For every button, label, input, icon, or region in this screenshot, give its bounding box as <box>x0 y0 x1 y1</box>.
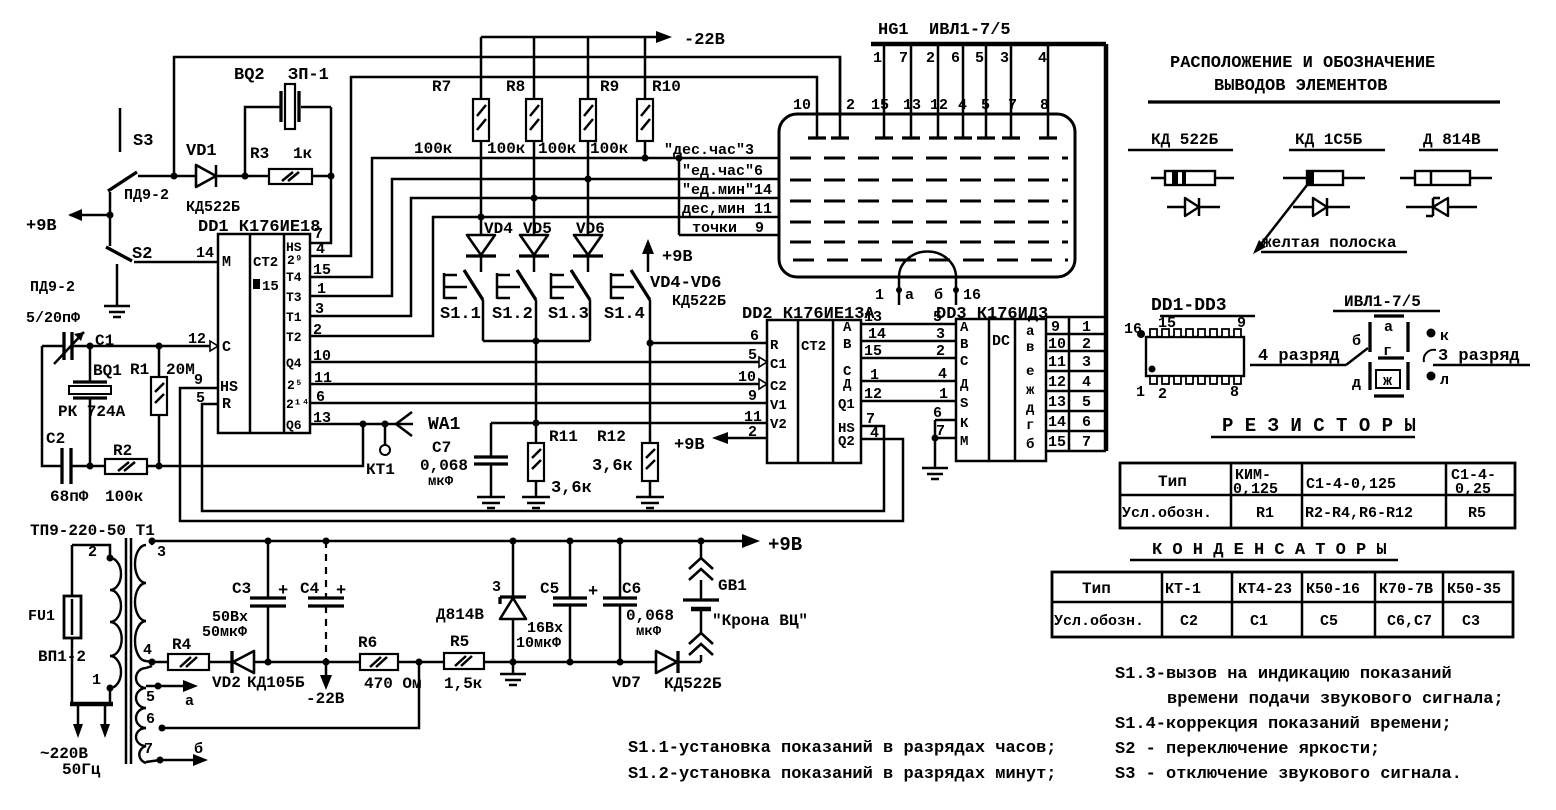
svg-text:100к: 100к <box>590 140 629 158</box>
junction R10/bus1 <box>642 155 649 162</box>
svg-text:Усл.обозн.: Усл.обозн. <box>1122 505 1212 522</box>
svg-text:С2: С2 <box>1180 613 1198 630</box>
svg-text:Усл.обозн.: Усл.обозн. <box>1054 613 1144 630</box>
svg-text:9: 9 <box>1237 315 1246 332</box>
svg-text:3: 3 <box>492 579 501 596</box>
svg-text:6: 6 <box>951 50 960 67</box>
node R6/R5 <box>416 659 423 666</box>
switch S2 (ПД9-2) <box>30 215 218 296</box>
svg-text:10: 10 <box>1048 336 1066 353</box>
junction R9/bus2 <box>585 176 592 183</box>
svg-text:КД 1С5Б: КД 1С5Б <box>1295 131 1363 149</box>
node feedback tap <box>360 421 367 428</box>
svg-text:C2: C2 <box>46 430 65 448</box>
svg-text:5: 5 <box>975 50 984 67</box>
svg-text:S1.4: S1.4 <box>604 305 645 324</box>
diode type КД 522Б heading <box>1128 131 1233 150</box>
svg-text:2: 2 <box>1158 386 1167 403</box>
wire DD1 pin 4 up to display pin 10 <box>310 77 817 256</box>
svg-text:РК 724А: РК 724А <box>58 403 126 421</box>
svg-text:5: 5 <box>146 689 155 706</box>
7-segment pictogram <box>1352 316 1449 396</box>
node S1.4 to R line <box>647 340 654 347</box>
wire bus4 дес.мин (DD1 p2) <box>310 217 779 336</box>
resistor R11 3,6к <box>522 423 592 508</box>
svg-text:С3: С3 <box>1462 613 1480 630</box>
svg-text:R10: R10 <box>652 78 681 96</box>
svg-text:М: М <box>222 254 231 271</box>
resistor R12 3,6к <box>592 428 664 508</box>
DD3 left pin numbers <box>933 309 948 440</box>
svg-text:100к: 100к <box>487 140 526 158</box>
svg-text:R6: R6 <box>358 634 377 652</box>
wire DD1 p10 to DD2 C1 <box>310 361 760 364</box>
capacitor C6 0,068мкФ <box>603 541 674 666</box>
svg-text:Т3: Т3 <box>286 290 302 305</box>
diode symbol КД522Б <box>1167 198 1220 216</box>
svg-text:13: 13 <box>1048 394 1066 411</box>
svg-text:3 разряд: 3 разряд <box>1438 347 1520 366</box>
svg-text:6: 6 <box>1082 414 1091 431</box>
svg-text:Д: Д <box>960 377 969 393</box>
svg-text:ж: ж <box>1383 373 1392 390</box>
svg-text:КД522Б: КД522Б <box>186 199 240 216</box>
capacitor C7 0,068мкФ <box>420 423 508 508</box>
svg-text:мкФ: мкФ <box>428 474 454 490</box>
svg-text:R1: R1 <box>130 361 149 379</box>
svg-text:+: + <box>278 582 288 601</box>
svg-text:+9В: +9В <box>768 534 802 556</box>
svg-text:4: 4 <box>938 366 947 383</box>
svg-text:10: 10 <box>738 369 756 386</box>
svg-text:50Гц: 50Гц <box>62 761 101 779</box>
svg-text:6: 6 <box>750 328 759 345</box>
svg-text:GB1: GB1 <box>718 577 747 595</box>
svg-text:к: к <box>1440 328 1449 345</box>
svg-text:д: д <box>1026 401 1035 417</box>
svg-text:"дес.час"3: "дес.час"3 <box>664 142 754 159</box>
switch S3 (ПД9-2) <box>108 108 169 215</box>
package drawing КД522Б <box>1151 171 1234 185</box>
label box of display inputs <box>664 142 772 237</box>
svg-text:+9В: +9В <box>662 248 693 267</box>
svg-text:R2-R4,R6-R12: R2-R4,R6-R12 <box>1305 505 1413 522</box>
winding tap a arrow <box>158 680 198 710</box>
power arrow -22V <box>306 662 345 708</box>
capacitor C4 (dashed option) <box>300 541 346 666</box>
right segment bus <box>1104 44 1109 451</box>
svg-text:7: 7 <box>144 741 153 758</box>
node R1 bottom <box>156 463 163 470</box>
svg-text:В: В <box>960 337 969 353</box>
svg-text:1: 1 <box>1136 384 1145 401</box>
svg-text:ж: ж <box>1026 383 1035 399</box>
diode VD5 <box>519 198 552 256</box>
svg-text:12: 12 <box>188 331 206 348</box>
node R1 top <box>156 343 163 350</box>
resistor R6 470 Ом <box>358 634 422 693</box>
svg-text:2¹⁴: 2¹⁴ <box>286 397 309 412</box>
yellow stripe pointer <box>1253 180 1407 254</box>
transformer secondary 3-4 <box>135 538 166 666</box>
node A (+9V switch node) <box>107 212 114 219</box>
wire bus1 дес.час (DD1 p15 to display) <box>310 158 779 277</box>
svg-text:DD3 К176ИД3: DD3 К176ИД3 <box>936 305 1048 324</box>
svg-text:10мкФ: 10мкФ <box>516 635 561 652</box>
svg-text:R4: R4 <box>172 636 192 654</box>
svg-text:11: 11 <box>1048 354 1066 371</box>
wire DD2 A to DD3 A <box>861 323 956 326</box>
label 3 разряд <box>1424 347 1530 366</box>
svg-text:2: 2 <box>936 343 945 360</box>
node BQ1 bottom <box>87 463 94 470</box>
capacitor table <box>1052 572 1513 637</box>
diode VD7 КД522Б <box>612 651 722 693</box>
svg-text:VD7: VD7 <box>612 674 641 692</box>
power arrow +9V (S1.4 top) <box>642 239 693 272</box>
svg-text:8: 8 <box>1040 97 1049 114</box>
svg-text:0,25: 0,25 <box>1455 481 1491 498</box>
wire common down to V2 line <box>535 341 538 423</box>
svg-text:С5: С5 <box>1320 613 1338 630</box>
rectified -22V line <box>152 661 701 664</box>
svg-text:BQ1: BQ1 <box>93 362 122 380</box>
zener VD3 Д814В <box>436 541 526 685</box>
svg-text:РАСПОЛОЖЕНИЕ И ОБОЗНАЧЕНИЕ: РАСПОЛОЖЕНИЕ И ОБОЗНАЧЕНИЕ <box>1170 54 1435 73</box>
svg-text:100к: 100к <box>538 140 577 158</box>
svg-text:R: R <box>770 338 779 354</box>
wire DD2 D to DD3 D <box>861 380 956 383</box>
svg-text:Q6: Q6 <box>286 418 302 433</box>
winding tap b arrow <box>160 741 208 766</box>
display HG1 ИВЛ1-7/5 <box>779 21 1075 277</box>
svg-text:S1.4-коррекция показаний време: S1.4-коррекция показаний времени; <box>1115 715 1452 734</box>
svg-text:г: г <box>1026 418 1034 434</box>
svg-text:2⁵: 2⁵ <box>287 378 303 393</box>
svg-text:2: 2 <box>88 544 97 561</box>
capacitor C3 50Вх50мкФ <box>202 541 288 666</box>
svg-text:15: 15 <box>262 279 279 295</box>
svg-text:C5: C5 <box>540 580 559 598</box>
svg-text:9: 9 <box>194 372 203 389</box>
resistors section title <box>1211 415 1416 437</box>
filament lead a <box>875 277 914 305</box>
switch S1.1 <box>440 256 483 341</box>
switch S1.2 <box>492 256 536 341</box>
svg-text:3,6к: 3,6к <box>592 457 633 476</box>
svg-text:HS: HS <box>220 379 238 396</box>
svg-text:ВП1-2: ВП1-2 <box>38 648 86 666</box>
svg-text:-22В: -22В <box>306 690 345 708</box>
svg-text:4 разряд: 4 разряд <box>1258 347 1340 366</box>
resistor R7 100к <box>414 37 489 217</box>
svg-text:R3: R3 <box>250 145 269 163</box>
transformer secondary 6-7 <box>136 725 166 764</box>
svg-text:S1.2: S1.2 <box>492 305 533 324</box>
package drawing КД105Б <box>1283 171 1365 185</box>
wire bus2 ед.час (DD1 p1) <box>310 179 779 296</box>
svg-text:15: 15 <box>871 97 889 114</box>
junction R7/bus4 <box>478 214 485 221</box>
svg-text:6: 6 <box>146 711 155 728</box>
display grid dashed rows <box>790 158 1068 260</box>
wire bus5 точки <box>679 234 779 237</box>
svg-text:б: б <box>194 741 203 758</box>
svg-text:дес,мин 11: дес,мин 11 <box>682 201 772 218</box>
svg-text:1: 1 <box>873 50 882 67</box>
resistor R1 20М <box>130 346 195 466</box>
svg-text:HG1 ИВЛ1-7/5: HG1 ИВЛ1-7/5 <box>878 21 1011 40</box>
DD1-DD3 package heading <box>1151 296 1255 316</box>
svg-text:R12: R12 <box>597 428 626 446</box>
svg-text:4: 4 <box>143 642 152 659</box>
power arrow +9V top-left <box>26 209 110 236</box>
svg-text:С1: С1 <box>1250 613 1268 630</box>
IC DD3 К176ИД3 <box>936 305 1048 461</box>
DIP16 package drawing <box>1124 315 1246 403</box>
diode symbol КД105Б <box>1293 198 1350 216</box>
svg-text:-22В: -22В <box>684 31 725 50</box>
transformer core <box>126 538 131 764</box>
svg-text:3,6к: 3,6к <box>551 479 592 498</box>
label 4 разряд <box>1250 347 1368 366</box>
svg-text:5: 5 <box>1082 394 1091 411</box>
switch S1.3 <box>548 256 590 341</box>
svg-text:R7: R7 <box>432 78 451 96</box>
wire DD1 p13 seconds line to DD2 V2 <box>310 423 767 424</box>
svg-text:R9: R9 <box>600 78 619 96</box>
svg-text:VD1: VD1 <box>186 142 217 161</box>
wire switch common S1.1-S1.3 <box>483 340 590 343</box>
svg-text:C4: C4 <box>300 580 320 598</box>
svg-text:ИВЛ1-7/5: ИВЛ1-7/5 <box>1344 293 1421 311</box>
svg-text:"Крона ВЦ": "Крона ВЦ" <box>712 612 808 630</box>
svg-text:DD1-DD3: DD1-DD3 <box>1151 296 1227 316</box>
node VD1/R3/BQ2 <box>242 173 249 180</box>
mains plug ~220V <box>40 688 113 779</box>
wire DD1 p6 to DD2 V1 <box>310 402 767 405</box>
svg-text:3: 3 <box>936 326 945 343</box>
svg-text:ПД9-2: ПД9-2 <box>30 279 75 296</box>
svg-text:14: 14 <box>1048 414 1066 431</box>
svg-text:VD2: VD2 <box>212 674 241 692</box>
svg-text:1,5к: 1,5к <box>444 675 483 693</box>
DD3 right pin numbers col 9-15 <box>1048 319 1066 451</box>
svg-text:+9В: +9В <box>674 436 705 455</box>
display segment pin numbers col 1-7 <box>1082 319 1091 451</box>
wire BQ2/R3 node down to DD1 pin 7 <box>310 107 331 243</box>
wire DD1 p11 to DD2 C2 <box>310 383 760 386</box>
svg-text:"ед.мин"14: "ед.мин"14 <box>682 182 772 199</box>
svg-text:1: 1 <box>875 287 884 304</box>
svg-text:2: 2 <box>748 424 757 441</box>
svg-text:+: + <box>336 582 346 601</box>
package drawing Д814В <box>1400 171 1492 185</box>
svg-text:4: 4 <box>958 97 967 114</box>
diode VD6 <box>573 179 605 256</box>
svg-text:VD4-VD6: VD4-VD6 <box>650 274 721 293</box>
svg-text:4: 4 <box>316 241 325 258</box>
ИВЛ1-7/5 pinout heading <box>1333 293 1440 311</box>
svg-text:1: 1 <box>92 672 101 689</box>
switch S1.4 <box>604 270 650 343</box>
battery GB1 Крона ВЦ <box>683 541 808 662</box>
svg-text:S: S <box>960 396 968 412</box>
svg-text:КД522Б: КД522Б <box>664 675 722 693</box>
svg-text:R: R <box>222 396 231 413</box>
svg-text:R1: R1 <box>1256 505 1274 522</box>
svg-text:R2: R2 <box>113 442 132 460</box>
svg-text:1: 1 <box>1082 319 1091 336</box>
svg-text:е: е <box>1026 364 1034 380</box>
svg-text:К50-35: К50-35 <box>1447 581 1501 598</box>
svg-text:2: 2 <box>1082 336 1091 353</box>
capacitors section title <box>1130 541 1398 560</box>
svg-text:Р Е З И С Т О Р Ы: Р Е З И С Т О Р Ы <box>1222 415 1416 437</box>
svg-text:2⁹: 2⁹ <box>287 253 303 268</box>
svg-text:2: 2 <box>926 50 935 67</box>
svg-text:3: 3 <box>157 544 166 561</box>
svg-text:б: б <box>934 287 943 304</box>
svg-text:S1.3: S1.3 <box>548 305 589 324</box>
svg-text:2: 2 <box>846 97 855 114</box>
power arrow +9V (DD2 pin2) <box>674 432 767 455</box>
svg-text:+9В: +9В <box>26 217 57 236</box>
svg-text:Q1: Q1 <box>838 397 855 413</box>
svg-text:С1-4-0,125: С1-4-0,125 <box>1306 476 1396 493</box>
transformer secondary 5-6 <box>136 666 162 728</box>
svg-text:К50-16: К50-16 <box>1306 581 1360 598</box>
svg-text:а: а <box>905 287 914 304</box>
svg-text:R11: R11 <box>549 428 578 446</box>
svg-text:VD6: VD6 <box>576 220 605 238</box>
wire DD2 B to DD3 B <box>861 340 956 343</box>
svg-text:времени подачи звукового сигна: времени подачи звукового сигнала; <box>1167 690 1504 709</box>
DD2 input arrows C1 C2 <box>759 357 767 367</box>
svg-text:Т4: Т4 <box>286 270 302 285</box>
svg-text:1к: 1к <box>293 145 313 163</box>
svg-text:S1.1-установка показаний в раз: S1.1-установка показаний в разрядах часо… <box>628 739 1056 758</box>
node KT1 tap <box>382 421 389 428</box>
diode VD4 <box>466 217 513 256</box>
variable capacitor C1 5/20пФ <box>26 310 114 364</box>
wire R line to DD2 R pin6 <box>650 342 767 345</box>
node C1/BQ1 <box>87 343 94 350</box>
svg-text:S1.2-установка показаний в раз: S1.2-установка показаний в разрядах мину… <box>628 765 1056 784</box>
svg-text:точки 9: точки 9 <box>692 220 764 237</box>
wire DD1 HS loop (to DD2 Q2) <box>180 388 903 521</box>
svg-text:ПД9-2: ПД9-2 <box>124 187 169 204</box>
ground (S2 lower throw) <box>104 264 130 317</box>
svg-text:КТ4-23: КТ4-23 <box>1238 581 1292 598</box>
svg-text:КД105Б: КД105Б <box>247 674 305 692</box>
svg-text:Тип: Тип <box>1082 580 1111 598</box>
svg-text:15: 15 <box>1158 315 1176 332</box>
svg-text:R5: R5 <box>1468 505 1486 522</box>
svg-text:в: в <box>1026 340 1034 356</box>
svg-text:V2: V2 <box>770 417 787 433</box>
svg-text:S2 - переключение яркости;: S2 - переключение яркости; <box>1115 740 1380 759</box>
svg-text:мкФ: мкФ <box>636 624 662 640</box>
svg-text:Т1: Т1 <box>286 310 302 325</box>
svg-text:"ед.час"6: "ед.час"6 <box>682 163 763 180</box>
display pin wires from rail <box>808 44 1057 138</box>
svg-text:1: 1 <box>939 386 948 403</box>
svg-text:а: а <box>1026 324 1035 340</box>
svg-text:9: 9 <box>748 388 757 405</box>
svg-text:S1.3-вызов на индикацию показа: S1.3-вызов на индикацию показаний <box>1115 665 1452 684</box>
node top rail tap <box>171 173 178 180</box>
-22V rail top <box>481 31 725 50</box>
resistor R8 100к <box>487 37 542 198</box>
svg-text:Д814В: Д814В <box>436 606 484 624</box>
diode VD2 КД105Б <box>212 651 305 692</box>
wire DD2 C to DD3 C <box>861 357 956 360</box>
svg-text:S1.1: S1.1 <box>440 305 481 324</box>
filament lead b <box>934 277 981 305</box>
diode type КД 105Б heading <box>1289 131 1385 150</box>
svg-text:14: 14 <box>196 245 214 262</box>
display top anode rail <box>871 42 1106 47</box>
diode VD1 КД522Б <box>186 142 245 216</box>
svg-text:15: 15 <box>1048 434 1066 451</box>
svg-text:13: 13 <box>903 97 921 114</box>
svg-text:л: л <box>1440 372 1449 389</box>
svg-text:12: 12 <box>1048 374 1066 391</box>
svg-text:DD1 К176ИЕ18: DD1 К176ИЕ18 <box>198 218 320 237</box>
svg-text:0,125: 0,125 <box>1233 481 1278 498</box>
svg-text:Q2: Q2 <box>838 434 855 450</box>
svg-text:а: а <box>185 693 194 710</box>
notes bottom middle <box>628 739 1056 784</box>
piezo BQ2 ЗП-1 <box>234 66 331 176</box>
wire S3 to VD1 <box>138 175 196 178</box>
label VD4-VD6 КД522Б <box>650 274 726 310</box>
svg-text:7: 7 <box>1008 97 1017 114</box>
svg-text:Д 814В: Д 814В <box>1423 131 1481 149</box>
fuse FU1 <box>28 545 86 703</box>
node R3 right / pin7 <box>328 173 335 180</box>
svg-text:3: 3 <box>1000 50 1009 67</box>
svg-text:КТ-1: КТ-1 <box>1165 581 1201 598</box>
zener symbol Д814В <box>1406 198 1477 216</box>
svg-text:К: К <box>960 416 969 432</box>
svg-text:5: 5 <box>981 97 990 114</box>
svg-text:4: 4 <box>870 425 879 442</box>
svg-text:68пФ: 68пФ <box>50 488 89 506</box>
svg-text:б: б <box>1026 437 1034 453</box>
resistor table <box>1120 463 1515 528</box>
svg-text:д: д <box>1352 375 1361 392</box>
svg-text:C3: C3 <box>232 580 251 598</box>
resistor R10 100к <box>590 37 681 158</box>
wire feedback to seconds line <box>159 424 363 466</box>
notes right column <box>1115 665 1504 784</box>
svg-text:10: 10 <box>793 97 811 114</box>
svg-text:СТ2: СТ2 <box>801 339 826 355</box>
svg-text:C: C <box>222 339 231 356</box>
svg-text:C2: C2 <box>770 379 787 395</box>
svg-text:4: 4 <box>1082 374 1091 391</box>
svg-text:R5: R5 <box>450 633 469 651</box>
svg-text:V1: V1 <box>770 398 787 414</box>
svg-text:VD5: VD5 <box>523 220 552 238</box>
svg-text:К О Н Д Е Н С А Т О Р Ы: К О Н Д Е Н С А Т О Р Ы <box>1152 541 1387 560</box>
resistor R5 1,5к <box>444 633 484 693</box>
diode type Д 814В heading <box>1419 131 1498 150</box>
capacitor C5 16Вх10мкФ <box>516 541 598 666</box>
svg-text:С: С <box>960 354 969 370</box>
